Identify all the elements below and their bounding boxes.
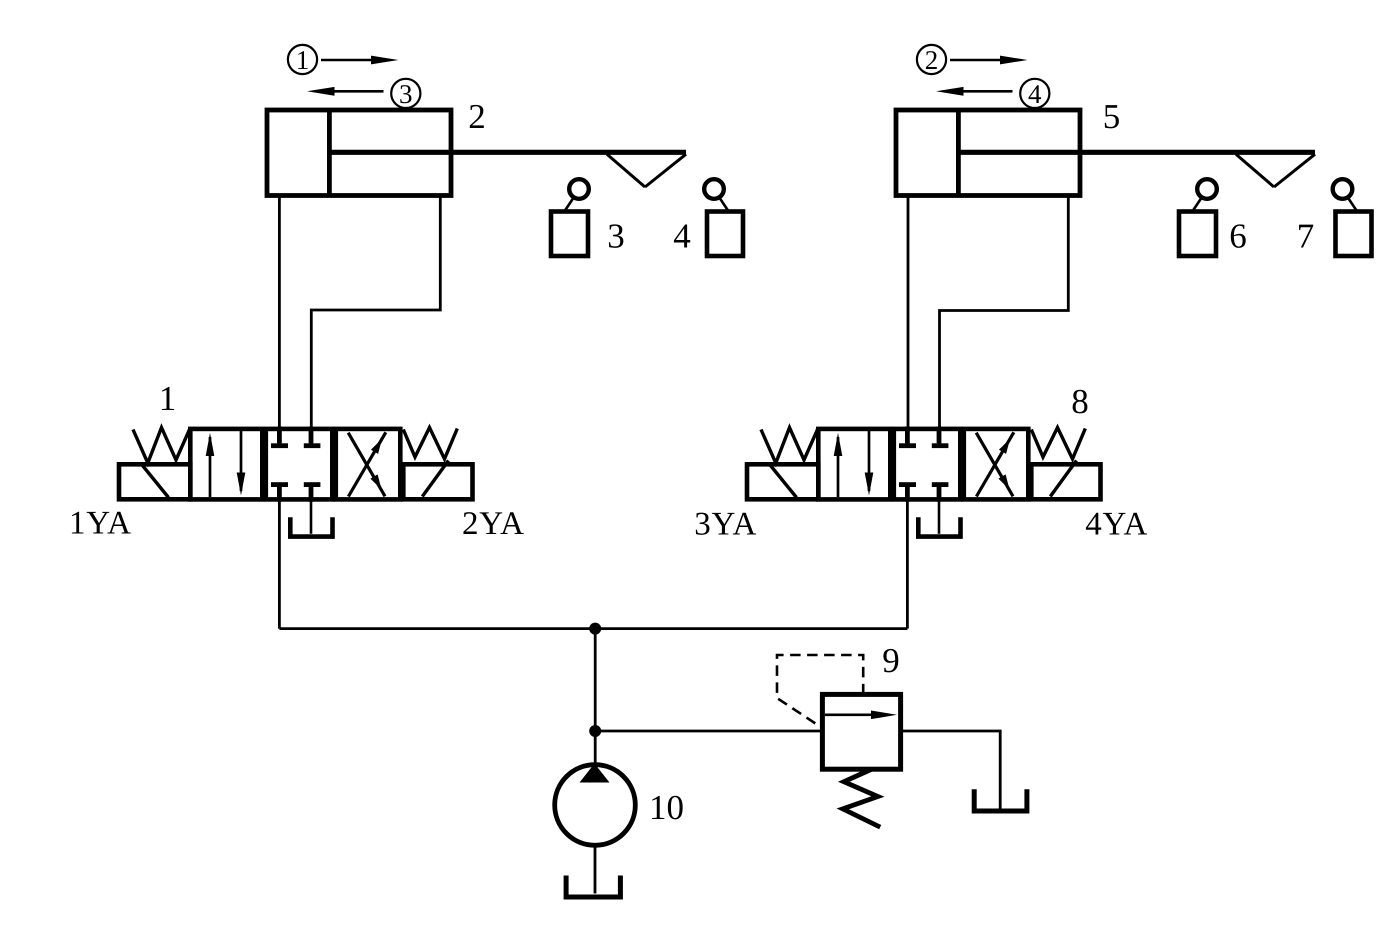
valve U1 port A stub bbox=[271, 427, 288, 449]
label 4YA bbox=[1085, 507, 1147, 543]
valve U8 port B stub bbox=[932, 427, 949, 449]
relief valve 9 spring bbox=[843, 770, 880, 828]
tool slide triangle right bbox=[1236, 154, 1315, 187]
VALVE 1 GROUP bbox=[69, 379, 524, 542]
valve U1 position box right (crossed arrows) bbox=[336, 429, 401, 500]
svg-text:4: 4 bbox=[673, 217, 691, 256]
label 4 bbox=[673, 217, 691, 256]
svg-text:3: 3 bbox=[607, 217, 625, 256]
wire relief valve outlet bbox=[901, 731, 1001, 809]
svg-text:2YA: 2YA bbox=[462, 506, 524, 542]
wire junction B to relief valve bbox=[595, 730, 820, 733]
tank under valve U8 bbox=[918, 499, 960, 537]
svg-text:4YA: 4YA bbox=[1085, 507, 1147, 543]
svg-text:1: 1 bbox=[159, 379, 177, 418]
label 3 bbox=[607, 217, 625, 256]
label 2 bbox=[468, 97, 486, 136]
motion arrow right (step 1) bbox=[321, 56, 399, 65]
wire cylinder 5 port B to valve 8 bbox=[940, 196, 1069, 445]
limit switch 4 bbox=[704, 179, 743, 256]
valve U1 port P stub bbox=[271, 482, 288, 502]
svg-text:7: 7 bbox=[1297, 217, 1315, 256]
motion arrow left (step 4) bbox=[936, 87, 1013, 96]
wire pump suction bbox=[594, 845, 597, 893]
label 9 bbox=[882, 641, 900, 680]
svg-text:10: 10 bbox=[649, 788, 684, 827]
svg-text:2: 2 bbox=[468, 97, 486, 136]
wire cylinder 2 port A to valve 1 bbox=[278, 196, 281, 445]
relief valve 9 pilot line (dashed) bbox=[777, 655, 863, 728]
label 1 bbox=[159, 379, 177, 418]
solenoid 3YA box bbox=[747, 464, 818, 499]
motion arrow left (step 3) bbox=[307, 87, 384, 96]
valve U8 port A stub bbox=[899, 427, 916, 449]
tank at relief valve outlet bbox=[974, 789, 1027, 811]
svg-text:9: 9 bbox=[882, 641, 900, 680]
junction node A bbox=[589, 623, 601, 635]
motion marker circle 1 bbox=[288, 45, 317, 75]
valve U1 position box left (parallel arrows) bbox=[190, 429, 262, 500]
wire cylinder 5 port A to valve 8 bbox=[907, 196, 910, 445]
motion marker circle 2 bbox=[917, 45, 946, 75]
motion marker circle 3 bbox=[391, 79, 420, 109]
solenoid 4YA box bbox=[1031, 461, 1100, 500]
label 8 bbox=[1071, 382, 1089, 421]
cylinder 2 body bbox=[267, 110, 451, 196]
label 6 bbox=[1229, 217, 1247, 256]
LEFT TOP GROUP bbox=[267, 45, 743, 444]
svg-text:8: 8 bbox=[1071, 382, 1089, 421]
valve U8 position box right (crossed arrows) bbox=[964, 429, 1029, 500]
valve U8 port P stub bbox=[899, 482, 916, 502]
svg-text:3: 3 bbox=[399, 79, 413, 109]
tool slide triangle bbox=[607, 154, 686, 187]
wire valve U1 port P down bbox=[278, 499, 281, 629]
spring right of valve U8 bbox=[1031, 428, 1085, 460]
VALVE 8 GROUP bbox=[694, 382, 1147, 543]
tank under valve U1 bbox=[290, 499, 332, 537]
valve U1 port T stub bbox=[304, 482, 321, 502]
spring left of valve U8 bbox=[761, 428, 818, 464]
tank at pump suction bbox=[566, 876, 620, 898]
svg-text:3YA: 3YA bbox=[694, 507, 756, 543]
motion arrow right (step 2) bbox=[950, 56, 1028, 65]
label 7 bbox=[1297, 217, 1315, 256]
cylinder 5 piston bbox=[956, 110, 961, 196]
svg-text:4: 4 bbox=[1028, 79, 1042, 109]
solenoid 2YA box bbox=[403, 461, 472, 500]
cylinder 5 piston rod bbox=[958, 150, 1315, 155]
spring right of valve U1 bbox=[403, 428, 457, 460]
pump 10 bbox=[555, 764, 636, 846]
limit switch 3 bbox=[551, 179, 589, 256]
wire cylinder 2 port B to valve 1 bbox=[311, 196, 440, 445]
cylinder 2 piston rod bbox=[329, 150, 686, 155]
valve U1 port B stub bbox=[304, 427, 321, 449]
junction node B bbox=[589, 725, 601, 737]
label 3YA bbox=[694, 507, 756, 543]
relief valve 9 body bbox=[822, 694, 900, 769]
cylinder 2 piston bbox=[327, 110, 332, 196]
main pressure line bbox=[279, 627, 907, 630]
spring left of valve U1 bbox=[133, 428, 190, 464]
label 10 bbox=[649, 788, 684, 827]
wire pump to junction A bbox=[594, 629, 597, 765]
svg-text:5: 5 bbox=[1103, 97, 1121, 136]
label 5 bbox=[1103, 97, 1121, 136]
limit switch 7 bbox=[1333, 179, 1372, 256]
valve U8 port T stub bbox=[932, 482, 949, 502]
RIGHT TOP GROUP bbox=[896, 45, 1372, 444]
label 1YA bbox=[69, 506, 131, 542]
motion marker circle 4 bbox=[1020, 79, 1049, 109]
svg-text:2: 2 bbox=[925, 45, 939, 75]
label 2YA bbox=[462, 506, 524, 542]
wire valve U8 port P down bbox=[906, 499, 909, 629]
svg-text:1: 1 bbox=[296, 45, 310, 75]
svg-text:6: 6 bbox=[1229, 217, 1247, 256]
valve U8 position box centre (closed) bbox=[894, 429, 961, 500]
limit switch 6 bbox=[1179, 179, 1217, 256]
cylinder 5 body bbox=[896, 110, 1080, 196]
svg-text:1YA: 1YA bbox=[69, 506, 131, 542]
valve U8 position box left (parallel arrows) bbox=[818, 429, 890, 500]
BOTTOM GROUP bbox=[279, 499, 1027, 897]
solenoid 1YA box bbox=[119, 464, 190, 499]
valve U1 position box centre (closed) bbox=[266, 429, 333, 500]
